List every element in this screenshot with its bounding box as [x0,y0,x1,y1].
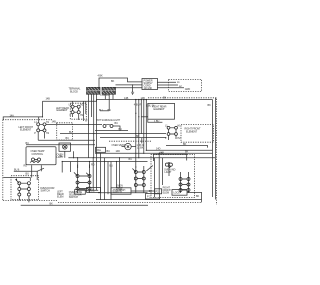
svg-text:L BK 14: L BK 14 [101,94,110,97]
svg-text:BU: BU [129,158,133,161]
wire L2 to power supply [116,87,143,89]
oven door switch S4 [18,182,31,196]
svg-text:BK: BK [196,195,200,198]
svg-text:BK: BK [208,104,212,107]
oven temp control box [26,147,56,165]
wire from left front switch to pilot [46,124,102,126]
junction dots mid buses [62,150,160,162]
svg-text:120 240: 120 240 [144,87,153,90]
wire vertical [107,162,109,195]
wire temp control drop [40,165,42,171]
bottom solid wire [21,204,148,206]
svg-text:BK: BK [163,97,167,100]
oven selector feed wire [14,171,37,180]
fan motor M1 [122,143,137,149]
wire power supply to cord L1 [157,81,176,83]
oven door switch dashed box [11,176,39,200]
left console dashed edge [3,120,52,201]
wire left front bottom [26,144,95,146]
wire drop from TB [104,94,106,99]
left rear infinite switch S1 [69,101,84,120]
mid bus 1 [95,152,213,154]
mid bus wire [95,130,128,132]
wire right front bottom [166,146,208,148]
svg-text:RD: RD [91,164,95,167]
svg-text:ELEMENT: ELEMENT [154,108,166,111]
svg-text:BAKE: BAKE [76,191,83,194]
svg-text:14D: 14D [116,150,121,153]
door cluster tails [19,196,29,202]
wire 14D right [146,149,212,151]
left front infinite switch S2 [34,121,50,140]
wire temp control drop2 [31,165,33,177]
wire drop from TB [108,94,110,111]
hot surface light L1 [103,124,113,127]
wire drop into left front switch [38,117,40,123]
hot surface light R [164,163,176,174]
wire drop [145,100,147,151]
wire vertical [110,162,112,200]
svg-text:14B: 14B [46,97,51,100]
wire drop [89,162,91,169]
wire drop [138,100,140,158]
wire verticals right cluster [154,158,156,198]
small box P2 [155,189,162,194]
svg-text:BU: BU [107,150,111,153]
wire vertical [116,162,118,188]
svg-text:LOCK: LOCK [174,192,181,195]
wire drop [92,158,94,191]
wire drop from TB [112,94,114,99]
svg-text:14D: 14D [160,152,165,155]
wire left low [3,178,30,181]
wire drop from TB [96,94,98,190]
bottom box C [111,188,131,194]
svg-text:CONTROL: CONTROL [32,153,44,156]
svg-text:14B: 14B [52,121,57,124]
wire vertical [162,158,164,185]
svg-text:ELEMENT: ELEMENT [186,130,198,133]
wire drop from TB to bus [88,94,90,157]
svg-text:SWITCH: SWITCH [41,189,51,192]
wire drop to left front switch [42,101,44,117]
svg-text:ELEMENT: ELEMENT [57,109,69,112]
wire N to power supply [116,84,143,86]
junction dots [42,99,147,162]
right vertical bus 2 [214,98,216,200]
wire [96,199,202,201]
bottom box E [172,190,187,196]
wire vertical [158,153,160,194]
mid bus wire 3 [100,137,166,139]
dashed mid wire [109,140,151,142]
svg-text:LIGHT: LIGHT [165,171,172,174]
wire right rear bottom [148,119,163,122]
wire vertical [100,153,102,199]
svg-text:BU: BU [69,131,73,134]
wire [98,192,148,194]
wire vertical [168,166,170,176]
wire power supply to cord N [157,84,178,86]
svg-text:GRD: GRD [185,88,191,91]
svg-text:ELEM: ELEM [57,195,63,198]
wire drop [77,158,79,168]
terminal block TB1 left group [87,87,101,94]
bottom dashed wire [3,199,58,201]
right front element dashed box [181,125,214,143]
svg-text:BK: BK [185,151,189,154]
svg-text:SWITCH: SWITCH [69,196,79,199]
svg-text:14B: 14B [124,97,129,100]
svg-text:BU: BU [115,122,119,125]
mid bus wire 2 [60,133,166,135]
mid bus 3 [62,161,147,163]
wire left feeder [3,117,42,120]
wire to fan [141,138,143,144]
wire power supply to cord GRD [157,87,184,89]
svg-text:BU: BU [66,137,70,140]
svg-text:RD: RD [24,165,28,168]
wire below box C [131,190,155,192]
bottom mid wires [78,189,99,191]
wire drop [140,100,142,134]
lower right console dashed box [151,155,195,198]
mid bus 2 [68,157,215,159]
bottom dashed wire right [58,201,202,203]
bottom box D [146,194,160,200]
svg-text:BU: BU [99,109,103,112]
bottom box row: box A [75,190,86,195]
main top bus wire [43,99,213,101]
switch arm [37,168,44,171]
wire L1 from terminal block to power supply [99,78,143,88]
svg-text:BLOCK: BLOCK [70,91,78,94]
right vertical bus 1 [212,100,214,197]
wire drop from TB [91,94,93,117]
svg-text:BU: BU [119,128,123,131]
wire vertical [85,101,87,114]
power cord plug dashed box [169,79,202,91]
oven selector switch S5 [76,165,91,194]
oven thermostat switch S6 [134,166,153,193]
right front infinite switch S3 [165,124,181,140]
wire vertical [104,158,106,200]
svg-text:L1 BK: L1 BK [137,146,144,149]
wire vertical [119,158,121,188]
wire stub right rear [141,116,148,118]
wire drop [61,162,63,173]
power supply box U1 [142,79,158,90]
wire drops center to oven cluster [135,100,137,168]
svg-text:REL: REL [97,149,102,152]
wire 14D to right cluster [153,154,186,160]
svg-text:14D: 14D [156,148,161,151]
wire pilot to bus [113,126,120,131]
wire drop [143,100,145,154]
wire stub [100,110,109,112]
svg-text:ELEM: ELEM [163,191,169,194]
wire right mid [152,158,154,161]
left front element dashed box [57,123,73,140]
wire drop [70,162,72,173]
bottom right corner wire [187,192,202,202]
wire element H wire [38,139,95,141]
svg-text:BU: BU [26,173,30,176]
svg-text:4 BU R: 4 BU R [134,103,142,106]
svg-text:BROIL: BROIL [88,189,96,192]
svg-text:4 BK: 4 BK [98,74,103,77]
svg-text:ELEMENT: ELEMENT [20,129,32,132]
right oven switch S7 [179,172,190,193]
switch arm door cluster [16,179,19,183]
left rear element dashed box [70,103,86,119]
oven light box [59,143,71,151]
svg-text:BK: BK [111,80,115,83]
switch arm thermostat [132,169,135,173]
svg-text:BU: BU [108,109,112,112]
relay box K1 [96,147,106,152]
right rear element box [148,103,175,119]
wire vertical [83,101,85,121]
switch arm selector [74,172,90,176]
wire lamp drop [65,151,74,157]
ground chassis symbol [131,84,134,94]
wire drop from TB [93,94,95,157]
terminal block TB1 right group [102,87,116,94]
svg-text:BK: BK [136,135,140,138]
dashed top edge right console box [148,98,217,205]
bottom box row: box B [87,187,101,192]
